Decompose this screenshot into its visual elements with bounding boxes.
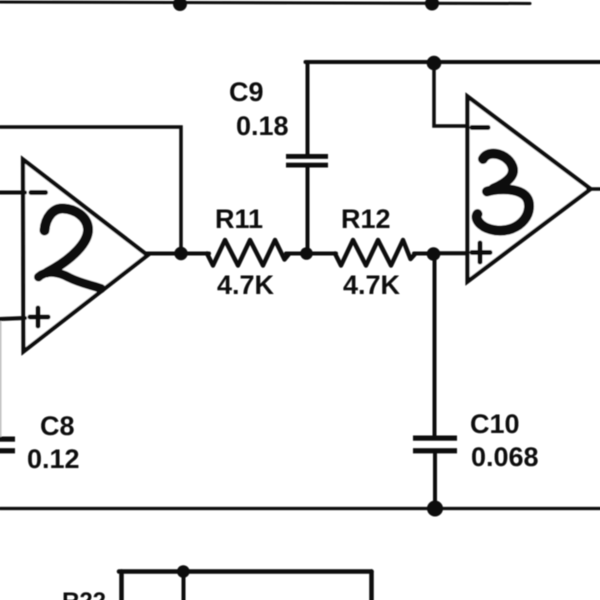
resistor R12 [335, 240, 415, 266]
wire C8 top faint [0, 322, 2, 436]
wire non-inverting input U2 [0, 318, 25, 319]
svg-text:C9: C9 [229, 77, 264, 107]
resistor R11 [207, 240, 289, 266]
wire C10 top [433, 254, 437, 436]
svg-text:R12: R12 [341, 204, 391, 234]
wire C9 top [306, 62, 310, 154]
svg-text:4.7K: 4.7K [343, 270, 401, 300]
svg-text:C10: C10 [470, 409, 520, 439]
label 3 handwritten U3 [477, 154, 529, 231]
svg-text:R22: R22 [62, 588, 106, 600]
wire R12 right lead [414, 252, 433, 256]
wire top of C9 to right edge [306, 60, 600, 64]
svg-text:R11: R11 [215, 204, 263, 234]
wire U2 output [146, 252, 209, 256]
wire bottom network right vertical [369, 572, 374, 600]
svg-text:0.12: 0.12 [27, 444, 80, 474]
wire feedback of U2 [0, 127, 181, 253]
plus sign U2 [30, 308, 48, 326]
wire bottom network horizontal [119, 569, 372, 574]
svg-text:0.068: 0.068 [471, 442, 539, 472]
label 2 handwritten U2 [39, 208, 102, 288]
plus sign U3 [472, 243, 490, 262]
node U2 output [174, 247, 187, 260]
capacitor C8 [0, 437, 15, 454]
node bottom bus C10 [427, 501, 443, 517]
op-amp U2 [23, 160, 148, 352]
wire R12 left lead [306, 252, 336, 256]
svg-text:C8: C8 [40, 411, 75, 441]
wire top bus [0, 2, 530, 4]
capacitor C10 [413, 436, 457, 454]
svg-text:0.18: 0.18 [236, 111, 289, 141]
node on top bus right [425, 0, 439, 11]
wire bottom bus [0, 507, 600, 510]
wire bottom network left vertical [119, 572, 124, 600]
wire bottom network middle vertical [182, 572, 186, 600]
svg-text:4.7K: 4.7K [217, 270, 275, 300]
minus sign U2 [31, 190, 46, 195]
wire U3 output stub [588, 187, 600, 191]
node junction R11 R12 C9 [300, 247, 313, 260]
wire inverting input U3 [434, 63, 467, 126]
node R12 C10 plus-input junction [427, 247, 441, 261]
node top wire U3 [427, 56, 442, 71]
capacitor C9 [286, 154, 328, 168]
wire inverting input U2 [0, 191, 25, 195]
minus sign U3 [472, 125, 488, 130]
node on top bus left [173, 0, 187, 11]
node bottom network [177, 565, 190, 578]
wire C9 bottom [306, 168, 310, 254]
wire C10 bottom [433, 454, 437, 509]
wire non-inverting input U3 [433, 251, 467, 255]
op-amp U3 [468, 97, 591, 282]
wire R11 right lead [286, 252, 308, 256]
